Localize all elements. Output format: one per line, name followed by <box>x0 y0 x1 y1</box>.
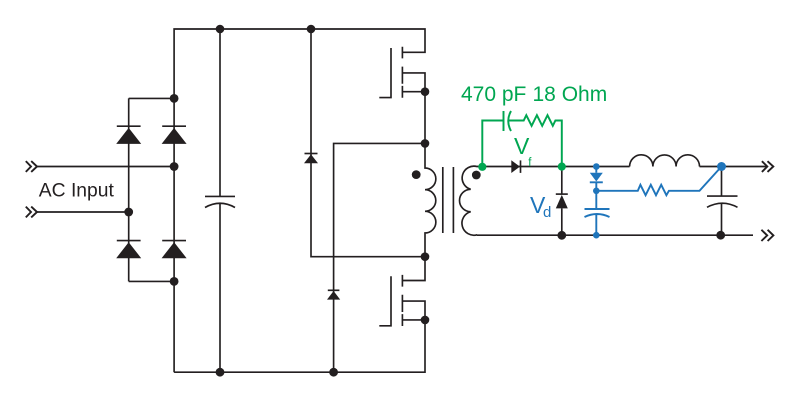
svg-text:d: d <box>543 204 551 221</box>
svg-text:470 pF: 470 pF <box>461 83 526 106</box>
svg-text:V: V <box>514 133 530 159</box>
svg-text:18 Ohm: 18 Ohm <box>533 83 608 106</box>
svg-text:AC Input: AC Input <box>39 180 115 201</box>
